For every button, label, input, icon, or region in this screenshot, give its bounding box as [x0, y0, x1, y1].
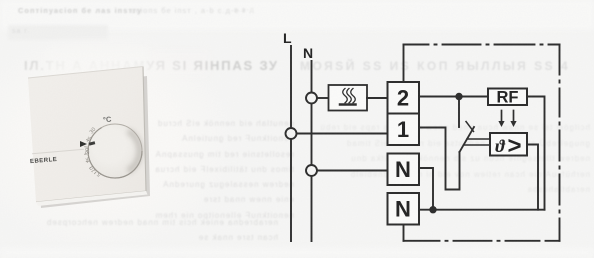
- dial scale numbers: [89, 126, 98, 135]
- wire: sensor to right bus: [527, 145, 538, 210]
- dial knob: [88, 124, 142, 178]
- RF resistor RF: [488, 89, 527, 107]
- faint mirrored heading band (left half): [24, 58, 279, 73]
- terminal circle on N (lower): [306, 165, 317, 176]
- terminal N (upper): [388, 154, 420, 186]
- wire: L circle to terminal 1: [297, 133, 388, 135]
- wire: terminal 1 to switch blade (U-detour): [419, 128, 460, 190]
- switch blade tick: [466, 122, 474, 132]
- wire: terminal N upper to neutral bus: [419, 168, 433, 210]
- lighter bottom strip: [0, 247, 594, 258]
- terminal circle on L: [286, 128, 297, 139]
- enclosure frame right (dash-dot): [559, 45, 561, 241]
- enclosure frame top (dash-dot): [404, 44, 560, 46]
- wire: supply line L: [290, 46, 292, 241]
- faint paragraph bleed text behind diagram: [315, 120, 590, 198]
- wire: terminal 2 to RF: [419, 96, 488, 98]
- switch blade: [460, 127, 475, 152]
- photo backdrop white band above plate: [45, 48, 150, 78]
- faint paragraph bleed text right of photo: [152, 116, 294, 223]
- junction on neutral bus: [429, 206, 436, 213]
- faint bleed-through text line at very top: [18, 6, 142, 15]
- junction on terminal-2 wire: [455, 93, 462, 100]
- mechanical link sensor to switch: [467, 138, 490, 140]
- faint mirrored heading band (right half): [300, 59, 570, 73]
- setpoint mark on dial: [89, 141, 95, 145]
- lighter top strip of scanned page: [0, 0, 594, 30]
- wire: supply line N: [311, 61, 313, 241]
- enclosure frame left bottom segment: [403, 225, 405, 241]
- wire: terminal N lower along neutral bus: [419, 209, 545, 211]
- temperature sensor box: [490, 133, 527, 160]
- terminal 2: [388, 82, 420, 114]
- photo backdrop (white area of product photograph): [0, 36, 250, 256]
- enclosure frame left top segment: [403, 45, 405, 83]
- wire: N circle to heating load: [317, 97, 329, 99]
- heating load (floor heating symbol): [329, 85, 368, 111]
- wire: RF to right bus: [527, 97, 545, 210]
- °C label on plate: [102, 114, 111, 124]
- thermostat drop shadow: [0, 0, 260, 258]
- pointer triangle: [80, 141, 87, 147]
- terminal circle on N (to heating load): [306, 93, 317, 104]
- wire: heating load to terminal 2: [367, 97, 388, 99]
- thermostat front plate: [0, 0, 260, 258]
- plate seam line: [32, 149, 84, 155]
- wire: lower N circle to terminal N: [317, 170, 388, 172]
- EBERLE logo: [30, 156, 58, 164]
- enclosure frame bottom (dash-dot): [404, 240, 560, 242]
- terminal 1: [388, 114, 420, 146]
- influence arrows from RF to sensor: [498, 111, 516, 128]
- terminal N (lower): [388, 193, 420, 225]
- wire: junction down to switch fixed contact: [458, 97, 460, 128]
- plate right/bottom edge lines: [0, 0, 260, 258]
- faint erased label box: [8, 25, 108, 40]
